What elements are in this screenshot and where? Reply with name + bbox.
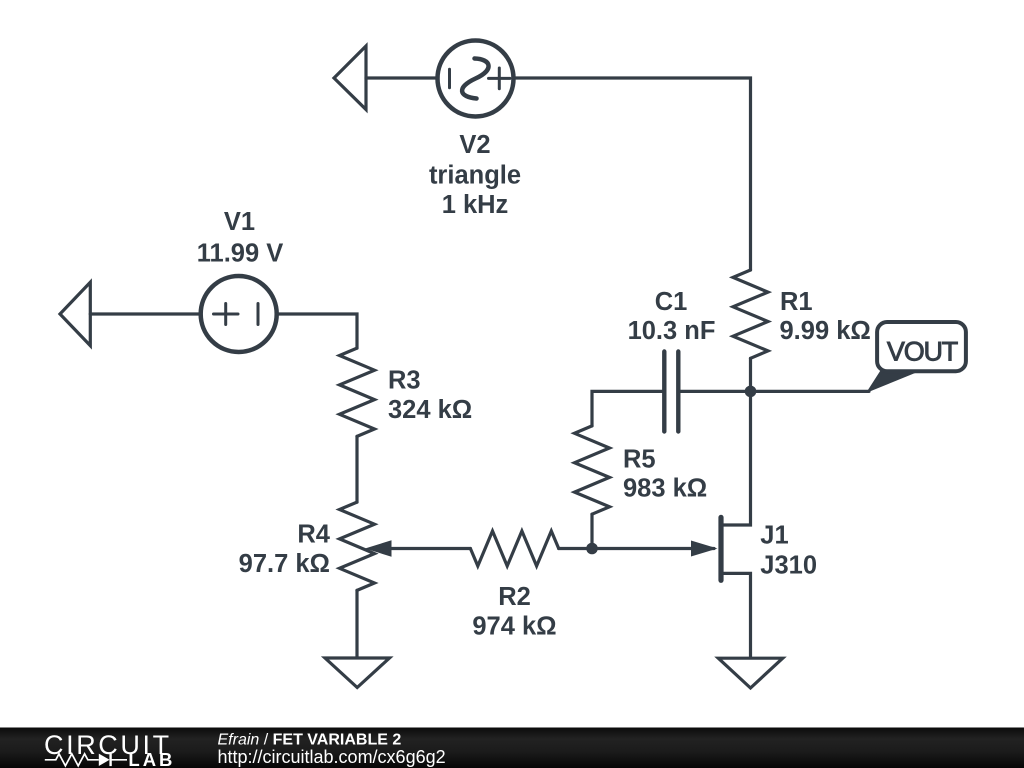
wire C1 right plate to node: [678, 390, 750, 393]
svg-text:R2: R2: [498, 583, 531, 611]
svg-text:974 kΩ: 974 kΩ: [472, 612, 556, 640]
transistor J1 gate arrow: [691, 541, 718, 557]
svg-text:1 kHz: 1 kHz: [442, 191, 509, 219]
svg-text:V2: V2: [459, 131, 490, 159]
CircuitLab logo resistor-diode squiggle: [45, 754, 99, 766]
junction node at R2/R5/gate: [586, 543, 598, 555]
CircuitLab logo diode symbol: [99, 754, 127, 767]
svg-text:R4: R4: [297, 521, 330, 549]
wire from R4 wiper to R2: [390, 547, 470, 550]
junction node at R1/C1/drain/VOUT: [745, 386, 757, 398]
svg-text:9.99 kΩ: 9.99 kΩ: [780, 317, 871, 345]
footer bar: [0, 728, 1024, 768]
svg-text:97.7 kΩ: 97.7 kΩ: [239, 550, 330, 578]
svg-text:V1: V1: [224, 208, 255, 236]
resistor R2: [470, 531, 558, 566]
wire R3 to R4: [355, 436, 358, 502]
VOUT flag box: [877, 322, 966, 371]
potentiometer R4 wiper arrow: [365, 540, 392, 556]
wire from V1 to corner down to R3: [277, 314, 358, 348]
wire from V2 to top-right corner down to R1: [513, 78, 751, 270]
wire node to VOUT flag: [751, 390, 870, 393]
port flag triangle at V2 negative terminal: [334, 46, 366, 110]
wire from V2 flag to V2 source: [366, 76, 438, 79]
svg-text:http://circuitlab.com/cx6g6g2: http://circuitlab.com/cx6g6g2: [218, 747, 446, 767]
wire gate node to J1 gate: [592, 547, 714, 550]
svg-text:Efrain / FET VARIABLE 2: Efrain / FET VARIABLE 2: [218, 732, 402, 749]
voltage source V2: [438, 41, 514, 117]
svg-text:R1: R1: [780, 288, 813, 316]
voltage source V1: [201, 276, 277, 352]
wire R1 bottom to node: [749, 358, 752, 391]
svg-text:J310: J310: [760, 551, 817, 579]
ground symbol below R4: [325, 658, 390, 688]
svg-text:10.3 nF: 10.3 nF: [628, 317, 716, 345]
ground symbol below J1: [718, 658, 782, 688]
wire from V1 flag to V1 source: [90, 312, 201, 315]
VOUT flag tail: [866, 365, 920, 393]
svg-text:LAB: LAB: [128, 749, 175, 768]
svg-text:triangle: triangle: [429, 161, 521, 189]
svg-text:983 kΩ: 983 kΩ: [623, 474, 707, 502]
resistor R1: [733, 270, 768, 358]
svg-text:R3: R3: [388, 367, 421, 395]
wire R2 to gate node: [559, 547, 592, 550]
capacitor C1: [664, 352, 678, 432]
svg-text:VOUT: VOUT: [887, 336, 958, 366]
resistor R3: [340, 348, 375, 436]
wire node down to J1 drain: [721, 391, 751, 525]
wire R5 bottom to node: [590, 514, 593, 548]
resistor R5: [575, 426, 610, 514]
svg-text:C1: C1: [655, 288, 688, 316]
port flag triangle at V1 negative terminal: [60, 282, 90, 345]
svg-text:11.99 V: 11.99 V: [197, 239, 284, 267]
wire R4 to ground: [355, 590, 358, 658]
svg-text:324 kΩ: 324 kΩ: [388, 396, 472, 424]
svg-text:J1: J1: [760, 521, 788, 549]
transistor J1 JFET channel bar: [718, 517, 723, 580]
svg-text:R5: R5: [623, 445, 656, 473]
wire J1 source to ground: [721, 573, 751, 658]
wire C1 left plate to corner above R5: [592, 391, 664, 426]
potentiometer R4 body: [340, 502, 375, 590]
